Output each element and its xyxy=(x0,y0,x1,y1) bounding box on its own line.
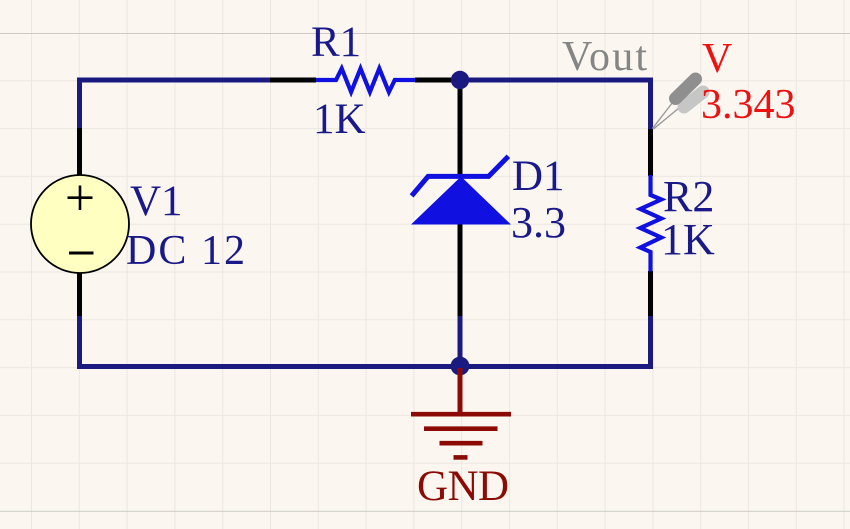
ground bar 1 xyxy=(411,412,511,417)
voltage source V1 body xyxy=(31,175,129,273)
wire: D1 to bottom net xyxy=(458,316,463,366)
V1 minus sign xyxy=(69,252,94,255)
wire: R1 left pin (black) xyxy=(270,78,316,83)
node junction top (Vout node) xyxy=(451,71,469,89)
wire: R1 right pin (black) xyxy=(415,78,452,83)
ground bar 2 xyxy=(424,426,498,431)
svg-text:1K: 1K xyxy=(661,215,715,264)
wire: R2 top pin (black) xyxy=(648,129,653,176)
svg-text:R2: R2 xyxy=(663,172,714,221)
ground stem xyxy=(458,368,463,414)
probe body shadow (light capsule) xyxy=(684,92,703,107)
probe needle lines xyxy=(653,98,683,129)
svg-text:D1: D1 xyxy=(512,153,565,200)
svg-text:R1: R1 xyxy=(311,19,361,66)
wire: top net V1->R1 xyxy=(80,80,272,130)
svg-text:1K: 1K xyxy=(313,96,366,143)
resistor R1 symbol xyxy=(316,69,415,93)
wire: pin V1 negative (black) xyxy=(77,273,82,317)
zener diode D1 triangle xyxy=(411,177,511,225)
svg-text:DC 12: DC 12 xyxy=(126,228,245,274)
svg-text:3.3: 3.3 xyxy=(511,198,566,247)
node junction bottom (GND node) xyxy=(451,357,470,376)
ground bar 3 xyxy=(440,441,483,446)
wire: Vout net R1->corner xyxy=(451,80,651,131)
svg-text:V: V xyxy=(702,36,732,82)
zener diode D1 cathode bar xyxy=(412,156,509,196)
resistor R2 symbol xyxy=(640,175,661,272)
svg-text:V1: V1 xyxy=(130,178,183,225)
wire: D1 bottom pin (black) xyxy=(458,224,463,317)
svg-text:Vout: Vout xyxy=(562,34,647,80)
svg-text:3.343: 3.343 xyxy=(701,82,796,128)
ground bar 4 xyxy=(454,455,468,460)
probe body (dark capsule) xyxy=(676,79,696,99)
wire: pin V1 positive (black) xyxy=(77,128,82,176)
wire: D1 top pin (black) xyxy=(458,80,463,177)
V1 plus sign xyxy=(68,186,93,211)
svg-text:GND: GND xyxy=(417,463,509,510)
wire: R2 bottom pin (black) xyxy=(648,271,653,316)
wire: left rail bottom + bottom net xyxy=(80,316,651,367)
